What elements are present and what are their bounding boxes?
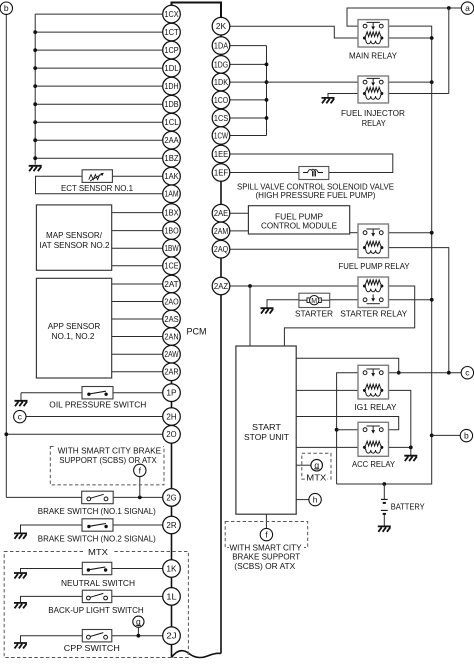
svg-text:ACC RELAY: ACC RELAY: [352, 459, 395, 469]
svg-text:2AO: 2AO: [164, 297, 178, 306]
svg-text:b: b: [464, 431, 469, 441]
svg-text:MTX: MTX: [88, 547, 108, 557]
svg-text:1BO: 1BO: [164, 227, 178, 236]
ground (brake switch NO.2): [14, 533, 27, 538]
svg-text:1CT: 1CT: [164, 28, 178, 37]
PCM pin 1DB: [163, 95, 181, 113]
svg-text:1CL: 1CL: [164, 118, 179, 127]
svg-text:FUEL PUMP RELAY: FUEL PUMP RELAY: [339, 261, 410, 271]
svg-text:WITH SMART CITY BRAKE: WITH SMART CITY BRAKE: [58, 446, 162, 456]
wire IG1 relay contact to connector c: [381, 371, 461, 375]
PCM pin 1CX: [163, 5, 181, 23]
PCM pin 2AO: [163, 293, 181, 311]
PCM pin 2R: [163, 516, 181, 534]
wires 2AE 2AM to fuel pump control module: [230, 213, 249, 231]
svg-text:1CW: 1CW: [214, 131, 229, 140]
PCM pin 1CP: [163, 41, 181, 59]
wire IG1 relay coil to ground rail: [382, 390, 411, 447]
wire start stop unit to ACC relay coil: [296, 446, 364, 448]
MTX option box (left): [4, 548, 188, 658]
wire starter relay contact to starter: [330, 299, 365, 301]
connector a: [461, 2, 473, 14]
connector h: [309, 493, 321, 505]
wire bus 1DA-1CW: [230, 46, 269, 136]
wire main relay contact feed to connector a: [347, 6, 461, 26]
PCM pin 2AE: [212, 204, 230, 222]
svg-text:NEUTRAL SWITCH: NEUTRAL SWITCH: [61, 578, 135, 588]
connector c: [461, 367, 473, 379]
PCM pin 1L: [163, 588, 181, 606]
wire 2AQ to fuel pump relay coil: [230, 248, 365, 250]
MTX option box (right): [302, 453, 331, 481]
PCM pin 1CT: [163, 23, 181, 41]
wire oil pressure switch to 1P: [21, 392, 163, 394]
relay starter: [358, 277, 389, 308]
wire starter relay coil to start stop unit: [284, 286, 414, 346]
spill valve control solenoid valve: [299, 167, 329, 180]
svg-text:1BX: 1BX: [164, 209, 179, 218]
wire connector b to 2O and 2G: [4, 14, 162, 499]
connector c: [14, 410, 26, 422]
svg-text:IAT SENSOR NO.2: IAT SENSOR NO.2: [40, 240, 110, 250]
ground bus wire (left, pins 1CX-1BZ): [33, 14, 162, 165]
PCM pin 2AN: [163, 328, 181, 346]
svg-text:BATTERY: BATTERY: [391, 502, 425, 512]
svg-text:(HIGH PRESSURE FUEL PUMP): (HIGH PRESSURE FUEL PUMP): [256, 190, 376, 200]
svg-text:1CX: 1CX: [164, 10, 179, 19]
svg-text:1K: 1K: [166, 564, 177, 573]
connector f: [134, 464, 146, 476]
ground (starter): [261, 308, 274, 313]
MAP sensor / IAT sensor NO.2: [36, 205, 111, 270]
wire starter to ground: [267, 300, 299, 308]
PCM pin 2J: [163, 627, 181, 645]
wire fuel pump control module to fuel pump relay contact: [350, 232, 365, 234]
svg-text:CPP SWITCH: CPP SWITCH: [64, 643, 120, 653]
wire 1DK bus to fuel injector relay contact: [267, 81, 366, 83]
wire ECT sensor to 1AM: [36, 176, 163, 194]
PCM pin 1DK: [212, 73, 230, 91]
wire connector c to 2H: [26, 416, 163, 418]
wire ACC relay contact to battery rail branch: [337, 429, 365, 431]
svg-text:OIL PRESSURE SWITCH: OIL PRESSURE SWITCH: [49, 400, 146, 410]
svg-text:1AK: 1AK: [164, 172, 179, 181]
svg-text:START: START: [252, 422, 282, 432]
PCM pin 2AQ: [212, 240, 230, 258]
neutral switch: [82, 562, 112, 574]
svg-text:1DG: 1DG: [214, 60, 228, 69]
svg-text:APP SENSOR: APP SENSOR: [48, 321, 101, 331]
relay ACC: [358, 422, 389, 456]
svg-text:2AR: 2AR: [164, 368, 178, 377]
svg-text:SUPPORT (SCBS) OR ATX: SUPPORT (SCBS) OR ATX: [59, 455, 157, 465]
svg-text:1BZ: 1BZ: [164, 154, 178, 163]
ground (IG1/ACC relay): [404, 456, 417, 461]
SCBS/ATX option box (bottom): [225, 522, 308, 552]
wire oil pressure switch to ground: [20, 393, 22, 401]
PCM pin 1BO: [163, 222, 181, 240]
PCM pin 1BX: [163, 204, 181, 222]
svg-text:h: h: [313, 495, 318, 505]
svg-text:1DB: 1DB: [164, 100, 178, 109]
PCM pin 1CW: [212, 127, 230, 145]
svg-text:1DH: 1DH: [164, 82, 178, 91]
PCM pin 1CL: [163, 113, 181, 131]
wire battery feed rail (relay contacts): [337, 26, 434, 486]
ground (oil pressure switch): [15, 401, 28, 406]
SCBS/ATX option box (left): [50, 443, 164, 485]
svg-text:1AM: 1AM: [164, 190, 178, 199]
svg-text:BRAKE SWITCH (NO.2 SIGNAL): BRAKE SWITCH (NO.2 SIGNAL): [38, 534, 156, 544]
relay IG1: [358, 365, 389, 399]
PCM pin 1CO: [212, 91, 230, 109]
svg-text:2AN: 2AN: [164, 332, 178, 341]
CPP switch: [82, 630, 112, 642]
svg-text:2AM: 2AM: [214, 227, 228, 236]
wire start stop unit to connector f (bottom): [265, 514, 267, 528]
svg-text:2AA: 2AA: [164, 136, 179, 145]
PCM pin 2O: [163, 426, 181, 444]
ECT sensor NO.1 (thermistor): [82, 170, 112, 183]
svg-text:CONTROL MODULE: CONTROL MODULE: [261, 221, 337, 231]
starter (motor): [299, 293, 330, 307]
wire CPP switch to ground: [21, 636, 83, 643]
wire neutral switch to 1K: [112, 568, 163, 570]
svg-text:MAP SENSOR/: MAP SENSOR/: [46, 230, 103, 240]
svg-text:2K: 2K: [216, 22, 227, 31]
svg-text:2AS: 2AS: [164, 315, 178, 324]
relay fuel injector: [358, 76, 389, 103]
svg-text:1DA: 1DA: [214, 42, 229, 51]
wire 2AZ to starter relay coil and start stop unit: [230, 284, 365, 346]
wire brake switch NO.2 to 2R: [113, 524, 163, 526]
svg-text:2O: 2O: [166, 430, 176, 439]
PCM pin 2AA: [163, 131, 181, 149]
PCM pin 2AS: [163, 310, 181, 328]
wire 1AK to ECT sensor: [112, 175, 162, 177]
wires APP sensor to 2AT 2AO 2AS 2AN 2AW 2AR: [112, 284, 163, 372]
svg-text:1DL: 1DL: [164, 64, 179, 73]
svg-text:1BW: 1BW: [164, 244, 179, 253]
brake switch (NO.1 signal): [82, 491, 114, 504]
PCM pin 2H: [163, 408, 181, 426]
PCM pin 2AT: [163, 275, 181, 293]
connector b: [0, 2, 12, 14]
svg-text:2AZ: 2AZ: [214, 282, 228, 291]
relay fuel pump: [358, 224, 389, 258]
oil pressure switch: [82, 387, 113, 399]
APP sensor NO.1, NO.2: [36, 278, 111, 378]
wire back-up light switch to 1L: [112, 595, 163, 597]
svg-text:FUEL INJECTOR: FUEL INJECTOR: [341, 108, 405, 118]
wire start stop unit to connector g: [296, 464, 311, 466]
svg-text:1DK: 1DK: [214, 78, 229, 87]
PCM pin 1CE: [163, 257, 181, 275]
PCM pin 1AM: [163, 185, 181, 203]
svg-text:1CS: 1CS: [214, 114, 228, 123]
svg-text:STOP UNIT: STOP UNIT: [244, 432, 290, 442]
wire fuel injector relay coil to connector a rail: [382, 8, 449, 94]
PCM pin 1EF: [212, 164, 230, 182]
svg-text:1CP: 1CP: [164, 46, 178, 55]
svg-text:2H: 2H: [166, 412, 176, 421]
svg-text:STARTER RELAY: STARTER RELAY: [340, 309, 407, 319]
svg-text:2R: 2R: [166, 521, 176, 530]
wire fuel pump relay coil to connector c rail: [382, 248, 449, 373]
PCM pin 2AR: [163, 363, 181, 381]
svg-text:MTX: MTX: [306, 472, 326, 482]
wire start stop unit to ACC relay contact: [296, 417, 399, 430]
svg-text:2J: 2J: [166, 632, 176, 641]
PCM pin 1AK: [163, 167, 181, 185]
PCM module outline (top bar and edge rails): [172, 3, 222, 658]
PCM pin 1DG: [212, 56, 230, 74]
wire 2K to main relay coil: [230, 26, 365, 38]
PCM pin 1K: [163, 560, 181, 578]
ground (left bus): [29, 166, 42, 171]
svg-text:2AW: 2AW: [164, 350, 179, 359]
svg-text:1EE: 1EE: [214, 150, 228, 159]
back-up light switch: [82, 590, 112, 602]
svg-text:1EF: 1EF: [214, 168, 228, 177]
wires MAP/IAT sensor to 1BX 1BO 1BW 1CE: [112, 213, 163, 266]
wire connector g to 2J wire: [137, 627, 141, 637]
PCM pin 1DL: [163, 59, 181, 77]
wire start stop unit to connector h: [296, 499, 309, 501]
svg-text:2AE: 2AE: [214, 209, 228, 218]
wire neutral switch to ground: [21, 569, 83, 573]
wire ACC relay coil to ground: [382, 446, 413, 456]
wire brake switch NO.2 to ground: [21, 525, 83, 533]
PCM pin 2G: [163, 489, 181, 507]
svg-text:MAIN RELAY: MAIN RELAY: [349, 51, 397, 61]
svg-text:(SCBS) OR ATX: (SCBS) OR ATX: [234, 561, 295, 571]
svg-text:a: a: [465, 3, 470, 13]
PCM break (wavy bottom edge): [172, 651, 222, 658]
svg-text:2G: 2G: [166, 493, 176, 502]
PCM pin 1EE: [212, 145, 230, 163]
PCM pin 2AW: [163, 345, 181, 363]
brake switch (NO.2 signal): [82, 519, 113, 531]
wire CPP switch to 2J: [112, 635, 163, 637]
PCM pin 2K: [212, 17, 230, 35]
PCM pin 1BZ: [163, 149, 181, 167]
wire 1EE/1EF loop through spill valve solenoid: [230, 154, 393, 173]
svg-text:NO.1, NO.2: NO.1, NO.2: [52, 331, 95, 341]
svg-text:BRAKE SWITCH (NO.1 SIGNAL): BRAKE SWITCH (NO.1 SIGNAL): [38, 506, 156, 516]
svg-text:1CO: 1CO: [214, 96, 228, 105]
connector f: [260, 528, 272, 540]
connector b: [460, 429, 472, 441]
svg-text:RELAY: RELAY: [362, 118, 386, 128]
wire fuel injector relay coil to ground: [328, 94, 365, 98]
ground (fuel injector relay): [322, 98, 335, 103]
svg-text:BACK-UP LIGHT SWITCH: BACK-UP LIGHT SWITCH: [48, 605, 144, 615]
start stop unit: [236, 346, 296, 514]
svg-text:M: M: [311, 298, 317, 305]
connector g: [133, 616, 144, 627]
wire connector f to 2G wire: [139, 477, 141, 498]
svg-text:1L: 1L: [166, 592, 177, 601]
ground (back-up light switch): [14, 603, 27, 608]
PCM pin 1BW: [163, 239, 181, 257]
wire IG1 relay contact to battery rail branch: [335, 373, 365, 484]
ground (neutral switch): [14, 573, 27, 578]
svg-text:ECT SENSOR NO.1: ECT SENSOR NO.1: [61, 183, 133, 193]
svg-text:2AQ: 2AQ: [214, 245, 228, 254]
wire start stop unit to IG1 relay contact: [296, 358, 400, 374]
wire start stop unit to IG1 relay coil: [296, 389, 364, 391]
svg-text:c: c: [18, 412, 23, 422]
relay main: [358, 20, 389, 47]
svg-text:1CE: 1CE: [164, 262, 178, 271]
svg-text:PCM: PCM: [187, 327, 207, 337]
wire back-up light switch to ground: [21, 596, 83, 602]
battery: [381, 484, 388, 526]
svg-text:IG1 RELAY: IG1 RELAY: [355, 402, 397, 412]
PCM pin 2AM: [212, 222, 230, 240]
PCM pin 1DA: [212, 37, 230, 55]
svg-text:2AT: 2AT: [164, 280, 178, 289]
svg-text:c: c: [465, 368, 470, 378]
PCM pin 1CS: [212, 109, 230, 127]
wire connector b (right) to battery rail: [432, 434, 461, 436]
PCM pin 1DH: [163, 77, 181, 95]
svg-text:STARTER: STARTER: [295, 309, 333, 319]
fuel pump control module: [248, 206, 349, 234]
ground (CPP switch): [14, 643, 27, 648]
PCM pin 1P: [163, 384, 181, 402]
PCM pin 2AZ: [212, 277, 230, 295]
svg-text:b: b: [4, 3, 9, 13]
connector g: [311, 459, 323, 471]
ground (battery): [378, 526, 391, 531]
svg-text:1P: 1P: [166, 389, 176, 398]
